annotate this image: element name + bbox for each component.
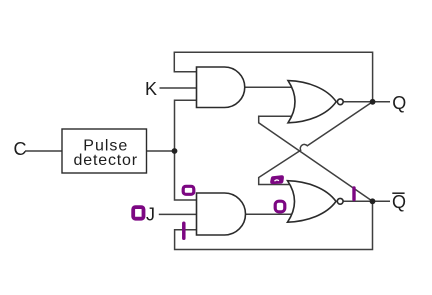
svg-text:Q: Q — [392, 192, 406, 212]
svg-text:Q: Q — [392, 93, 406, 113]
svg-text:C: C — [14, 139, 27, 159]
svg-text:J: J — [146, 205, 155, 225]
svg-text:K: K — [145, 79, 157, 99]
svg-text:detector: detector — [74, 152, 138, 169]
